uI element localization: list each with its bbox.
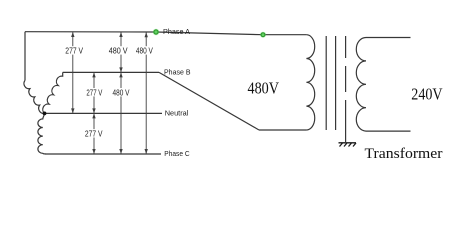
wire Phase C: [46, 153, 162, 155]
svg-text:240V: 240V: [411, 85, 443, 104]
node marker green 1: [153, 29, 160, 36]
label 480V (A-C): [135, 46, 154, 55]
label 480 V (A-B): [108, 46, 129, 55]
dimension arrow 480V Phase A to Phase C: [145, 32, 147, 154]
node: neutral junction dot: [43, 112, 47, 116]
ground symbol: [339, 143, 357, 147]
label 277 V (N-C): [84, 129, 104, 138]
label 277 V (B-N): [85, 88, 103, 97]
svg-text:277 V: 277 V: [85, 130, 103, 139]
dimension arrow 277V Phase B to Neutral and Neutral to Phase C: [93, 72, 95, 154]
dimension arrow 480V Phase A to Phase B to Phase C: [120, 32, 122, 154]
winding A (Phase A to neutral point): [24, 80, 45, 113]
svg-text:Phase A: Phase A: [163, 27, 190, 36]
svg-text:277 V: 277 V: [86, 88, 103, 97]
svg-text:Phase B: Phase B: [164, 68, 191, 77]
svg-text:Neutral: Neutral: [165, 109, 189, 118]
svg-text:277 V: 277 V: [65, 47, 83, 56]
svg-text:Transformer: Transformer: [365, 146, 443, 162]
wire Phase B diagonal to primary: [159, 72, 259, 130]
voltage value labels (with white backing): [64, 46, 154, 138]
wire Phase B horizontal: [63, 71, 159, 73]
transformer core line 1: [325, 36, 327, 130]
label 277 V (A-N): [64, 46, 84, 55]
svg-text:480 V: 480 V: [109, 47, 128, 56]
winding C (neutral point to Phase C): [38, 113, 46, 154]
transformer secondary winding: [356, 38, 410, 132]
wire primary bottom: [259, 129, 306, 131]
node marker green 2: [260, 32, 266, 38]
grounded shield (dashed): [345, 36, 347, 58]
wire left vertical drop: [24, 32, 26, 81]
phase name labels: [163, 27, 191, 158]
label 480 V (B-C): [112, 88, 131, 97]
svg-text:480 V: 480 V: [113, 88, 131, 97]
wire neutral: [45, 112, 163, 114]
svg-text:Phase C: Phase C: [164, 149, 190, 158]
wire Phase A top: [25, 32, 306, 35]
svg-text:480V: 480V: [248, 79, 280, 98]
dimension arrow 277V Phase A to Neutral: [71, 32, 148, 154]
transformer core line 2: [335, 36, 337, 130]
svg-text:480 V: 480 V: [136, 47, 154, 56]
winding B (Phase B to neutral point): [43, 72, 63, 113]
transformer primary winding: [306, 35, 314, 130]
